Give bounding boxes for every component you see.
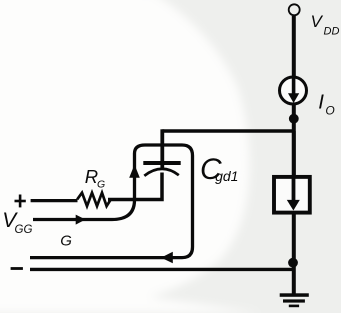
- terminal mark [11,267,23,270]
wire VDD terminal to current source [292,16,296,78]
label C_gd1 [200,153,238,186]
current source I1 [280,77,307,104]
background white blob [0,0,262,313]
terminal VDD (open circle) [289,4,300,15]
wire + terminal to resistor [31,199,78,202]
svg-text:I: I [318,91,324,114]
+ terminal mark [15,195,26,208]
wire current source to box [292,104,296,177]
current path arrow: lower feed with right arrowhead [30,145,193,258]
wire capacitor top lead [160,129,164,169]
wire box to ground [292,212,296,295]
node N1 (junction dot) [289,114,299,124]
current path left arrowhead [161,252,173,263]
resistor RG [77,193,111,206]
label R_G [85,166,105,191]
svg-text:V: V [311,12,324,31]
wire box top stub [292,131,296,177]
label I_O [318,91,335,118]
svg-text:G: G [60,233,72,250]
svg-text:gd1: gd1 [215,168,238,184]
svg-text:G: G [97,179,105,191]
wire bottom rail [30,268,294,271]
svg-text:O: O [325,103,334,117]
capacitor Cgd1 [143,161,180,176]
node N2 (junction dot) [288,258,298,268]
current path up arrowhead [129,165,140,178]
wire capacitor bottom lead to gate wire [108,173,162,200]
ground [280,293,309,307]
svg-text:DD: DD [324,26,340,38]
label V_DD [311,12,340,38]
controlled source box M1 [274,177,310,213]
svg-text:GG: GG [15,224,33,236]
label V_GG [2,209,32,236]
wire horizontal gate-drain feed [162,129,293,132]
